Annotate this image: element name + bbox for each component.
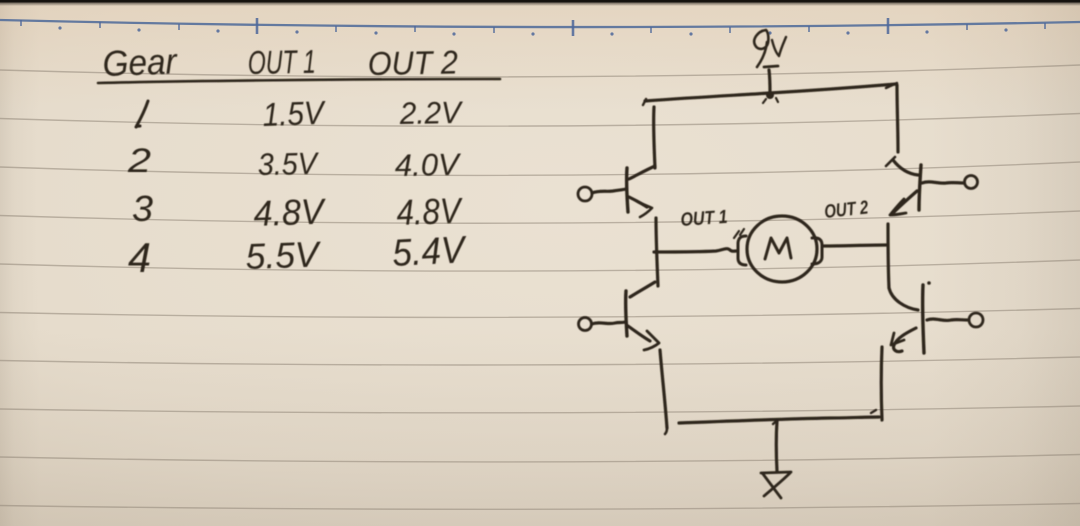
Q4 base circle — [969, 313, 983, 327]
junction dot on top rail — [766, 91, 774, 99]
Q3 base lead wire — [592, 322, 625, 324]
right mid vertical wire (OUT2 node) — [888, 224, 889, 288]
blue margin ruler line — [0, 20, 1080, 27]
Q2 body bar — [919, 165, 921, 210]
svg-text:4.8V: 4.8V — [396, 190, 464, 233]
motor M circle — [747, 216, 817, 282]
Q3 emitter wire down to bottom rail — [660, 350, 667, 428]
svg-text:OUT 2: OUT 2 — [367, 43, 458, 82]
Q3 base circle — [579, 318, 592, 331]
9V supply terminal bar — [764, 66, 778, 67]
svg-text:OUT 2: OUT 2 — [823, 197, 869, 223]
Q1 collector lead — [629, 166, 655, 179]
svg-text:4.8V: 4.8V — [253, 190, 327, 234]
top rail wire — [645, 84, 896, 101]
svg-text:1.5V: 1.5V — [262, 94, 327, 133]
transistor Q3 (bottom-left) collector lead — [630, 282, 655, 297]
Q1 emitter lead with arrow — [629, 197, 647, 207]
right vertical wire from rail to Q2 collector — [897, 85, 898, 152]
svg-text:2: 2 — [127, 142, 151, 180]
gear 1 (handwritten slash style) — [136, 101, 148, 127]
transistor Q2 (top-right) collector lead — [893, 160, 918, 175]
transistor Q1 (top-left) base circle — [578, 187, 592, 201]
Q4 emitter wire down to bottom rail — [880, 347, 884, 420]
motor letter M — [765, 238, 791, 259]
svg-text:3: 3 — [132, 188, 153, 229]
Q3 body bar — [626, 291, 627, 336]
9V supply stem wire — [769, 70, 770, 93]
Q2 emitter lead with arrow — [894, 191, 917, 212]
wire from OUT1 node to motor left brush — [654, 249, 736, 252]
svg-text:OUT 1: OUT 1 — [247, 43, 316, 81]
motor left brush terminal — [738, 236, 746, 265]
wire from motor right brush to OUT2 node — [824, 245, 886, 246]
svg-text:3.5V: 3.5V — [258, 146, 321, 182]
Q4 emitter lead with curled arrow — [894, 328, 916, 352]
Q2 base circle — [965, 176, 978, 189]
left vertical wire from rail to Q1 collector — [654, 107, 655, 168]
svg-text:OUT 1: OUT 1 — [680, 207, 728, 231]
svg-text:4: 4 — [128, 234, 151, 281]
motor right brush terminal — [812, 238, 822, 264]
Q3 emitter lead with arrow — [628, 326, 650, 341]
svg-text:5.5V: 5.5V — [245, 233, 322, 277]
bottom rail wire — [679, 417, 879, 423]
svg-text:4.0V: 4.0V — [395, 147, 463, 183]
svg-text:5.4V: 5.4V — [391, 229, 468, 275]
left mid vertical wire (OUT1 node) — [656, 218, 658, 286]
table header underline — [98, 79, 500, 83]
Q4 base lead wire — [927, 319, 967, 320]
svg-text:2.2V: 2.2V — [399, 95, 465, 131]
ground stem wire — [775, 421, 779, 471]
Q1 base lead wire — [592, 189, 626, 193]
transistor Q4 (bottom-right) body bar — [923, 285, 924, 353]
Q4 collector curve from OUT2 node — [889, 288, 918, 310]
ground symbol triangle — [761, 472, 791, 473]
Q1 body bar — [627, 168, 628, 212]
9V supply label — [754, 30, 768, 67]
Q2 base lead wire — [922, 182, 964, 183]
svg-text:Gear: Gear — [102, 40, 179, 84]
